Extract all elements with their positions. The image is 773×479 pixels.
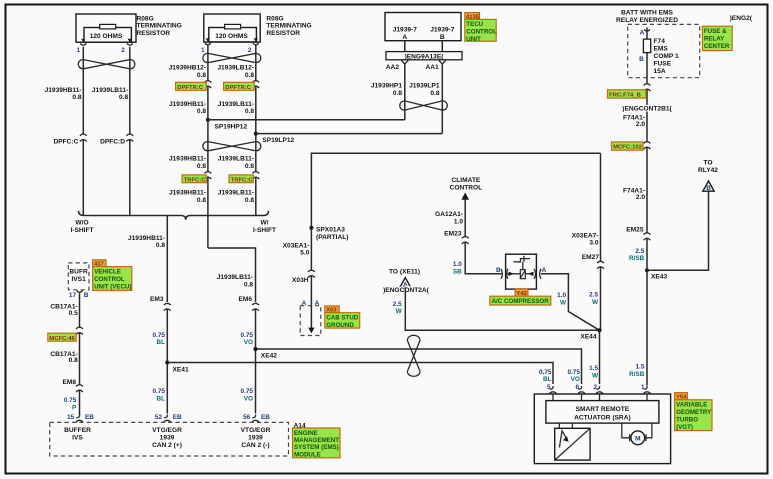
resistor R08G #2 element symbol bbox=[225, 24, 241, 29]
resistor R08G #2 inner 120 OHMS box bbox=[209, 28, 257, 43]
svg-text:GA12A1-: GA12A1- bbox=[435, 211, 463, 218]
svg-text:0.75: 0.75 bbox=[153, 332, 166, 339]
wire 0.75 VO lower bbox=[255, 349, 257, 414]
svg-text:0.8: 0.8 bbox=[245, 72, 254, 79]
svg-text:W: W bbox=[592, 372, 599, 379]
svg-text:56: 56 bbox=[243, 414, 251, 421]
svg-text:VTG/EGR: VTG/EGR bbox=[152, 427, 182, 434]
svg-text:EM3: EM3 bbox=[150, 296, 164, 303]
connector X03H bbox=[310, 271, 312, 275]
svg-text:VARIABLE: VARIABLE bbox=[676, 402, 707, 409]
svg-text:W/: W/ bbox=[260, 220, 268, 227]
ID label 417 bbox=[93, 260, 106, 267]
svg-text:CENTER: CENTER bbox=[704, 43, 730, 50]
motor wires bbox=[622, 423, 652, 438]
node XE41 junction bbox=[165, 360, 169, 364]
twisted pair symbol vertical (XE41/XE42) bbox=[407, 335, 420, 376]
svg-text:ACTUATOR (SRA): ACTUATOR (SRA) bbox=[574, 414, 631, 421]
svg-text:3.0: 3.0 bbox=[589, 239, 598, 246]
connector EM8 bbox=[79, 385, 81, 389]
svg-text:(VGT): (VGT) bbox=[676, 424, 693, 431]
triangle node B (RLY42) bbox=[703, 181, 714, 191]
svg-text:0.8: 0.8 bbox=[245, 108, 254, 115]
wire J1939LP1 bbox=[441, 63, 443, 133]
wire 0.75 BL lower bbox=[166, 363, 168, 414]
svg-text:GEOMETRY: GEOMETRY bbox=[676, 409, 712, 416]
connector AA2 hook bbox=[401, 60, 408, 64]
svg-text:DPFTR:C: DPFTR:C bbox=[177, 85, 204, 91]
svg-text:CONTROL: CONTROL bbox=[466, 29, 497, 36]
connector EM3 bbox=[166, 304, 168, 308]
TECU pin A wire bbox=[404, 41, 406, 52]
ID label 413E bbox=[465, 13, 480, 20]
svg-text:1.0: 1.0 bbox=[557, 292, 566, 299]
svg-text:DPFC:C: DPFC:C bbox=[53, 139, 78, 146]
svg-text:0.8: 0.8 bbox=[197, 108, 206, 115]
svg-text:EM8: EM8 bbox=[62, 379, 76, 386]
svg-text:EMS: EMS bbox=[654, 46, 669, 53]
svg-text:0.8: 0.8 bbox=[244, 282, 253, 289]
pin 6 hook bbox=[578, 386, 585, 394]
svg-text:A: A bbox=[402, 34, 407, 41]
label ENGINE MANAGEMENT SYSTEM (EMS) MODULE bbox=[293, 428, 341, 458]
svg-text:J1939-7: J1939-7 bbox=[393, 26, 418, 33]
svg-text:1: 1 bbox=[641, 384, 645, 391]
highlighted label TRFC:C #1 bbox=[182, 175, 206, 183]
svg-text:0.8: 0.8 bbox=[245, 197, 254, 204]
svg-text:DPFC:D: DPFC:D bbox=[100, 139, 125, 146]
svg-text:5: 5 bbox=[547, 384, 551, 391]
svg-text:W/O: W/O bbox=[75, 220, 88, 227]
svg-text:X03EA7-: X03EA7- bbox=[572, 232, 599, 239]
svg-text:120 OHMS: 120 OHMS bbox=[215, 33, 248, 40]
svg-text:J1939LB11-: J1939LB11- bbox=[218, 155, 254, 162]
svg-text:SB: SB bbox=[453, 268, 462, 275]
svg-text:J1939HB11-: J1939HB11- bbox=[128, 235, 165, 242]
svg-text:1.0: 1.0 bbox=[454, 218, 463, 225]
node SPX01A3 dot bbox=[309, 226, 313, 230]
resistor R08G #2 outer box bbox=[204, 14, 260, 42]
svg-text:DPFTR:C: DPFTR:C bbox=[225, 85, 252, 91]
SRA header box bbox=[546, 401, 659, 424]
svg-text:SMART REMOTE: SMART REMOTE bbox=[576, 406, 630, 413]
svg-text:AA2: AA2 bbox=[386, 64, 400, 71]
svg-text:6: 6 bbox=[575, 384, 579, 391]
resistor R08G #2 pin 1 terminal bbox=[206, 38, 210, 41]
wire X03EA7 vertical (EM27) bbox=[600, 153, 602, 330]
svg-text:J1939HB12-: J1939HB12- bbox=[169, 64, 206, 71]
svg-text:RESISTOR: RESISTOR bbox=[266, 30, 300, 37]
svg-text:TO: TO bbox=[703, 160, 712, 167]
svg-text:FUSE: FUSE bbox=[654, 60, 672, 67]
pin A bracket connectors bbox=[534, 269, 541, 279]
svg-text:RLY42: RLY42 bbox=[698, 167, 718, 174]
label A/C COMPRESSOR bbox=[490, 296, 551, 305]
svg-text:BL: BL bbox=[156, 339, 165, 346]
svg-text:M: M bbox=[635, 436, 641, 443]
svg-text:2: 2 bbox=[248, 47, 252, 54]
svg-text:XE44: XE44 bbox=[580, 334, 596, 341]
svg-text:CONTROL: CONTROL bbox=[450, 185, 483, 192]
svg-text:SYSTEM (EMS): SYSTEM (EMS) bbox=[294, 444, 339, 451]
svg-text:J1939LB11-: J1939LB11- bbox=[92, 87, 128, 94]
ID label X03 bbox=[325, 306, 339, 313]
svg-text:BL: BL bbox=[543, 376, 552, 383]
pin 2 hook bbox=[596, 386, 603, 394]
svg-text:BUFR: BUFR bbox=[69, 269, 88, 276]
svg-text:W: W bbox=[396, 308, 403, 315]
svg-text:2.5: 2.5 bbox=[393, 301, 402, 308]
svg-text:0.5: 0.5 bbox=[69, 310, 78, 317]
svg-text:J1939HB11-: J1939HB11- bbox=[169, 101, 206, 108]
svg-text:J1939LP1: J1939LP1 bbox=[409, 83, 440, 90]
svg-text:RELAY ENERGIZED: RELAY ENERGIZED bbox=[616, 17, 678, 24]
connector FRC:F74_B hooks bbox=[646, 84, 648, 88]
svg-text:0.8: 0.8 bbox=[393, 90, 402, 97]
svg-text:VEHICLE: VEHICLE bbox=[94, 268, 121, 275]
svg-text:15: 15 bbox=[67, 414, 75, 421]
svg-text:1: 1 bbox=[201, 47, 205, 54]
svg-text:B: B bbox=[84, 292, 89, 299]
position sensor box bbox=[555, 428, 590, 460]
wire XE41 horizontal bbox=[167, 363, 553, 385]
svg-text:J1939HB11-: J1939HB11- bbox=[169, 155, 206, 162]
arrow to climate control bbox=[461, 192, 469, 199]
svg-text:J1939LB12-: J1939LB12- bbox=[217, 64, 254, 71]
label CAB STUD GROUND bbox=[325, 313, 360, 328]
svg-text:FRC:F74_B: FRC:F74_B bbox=[609, 93, 641, 99]
pin 5 hook bbox=[549, 386, 556, 394]
svg-text:EM27: EM27 bbox=[582, 254, 600, 261]
ID label Y42 bbox=[515, 289, 528, 296]
svg-text:0.8: 0.8 bbox=[197, 72, 206, 79]
connector MCFC:46 hooks bbox=[79, 328, 81, 332]
fuse F74 element bbox=[643, 39, 650, 53]
connector TRFC:C left hooks bbox=[207, 172, 209, 176]
svg-text:2.0: 2.0 bbox=[636, 194, 645, 201]
connector EM27 bbox=[600, 262, 602, 266]
svg-text:0.75: 0.75 bbox=[153, 388, 166, 395]
svg-text:R08G: R08G bbox=[137, 15, 154, 22]
wire branch to RLY42 bbox=[647, 191, 709, 270]
svg-text:TURBO: TURBO bbox=[676, 416, 698, 423]
svg-text:VO: VO bbox=[571, 376, 580, 383]
svg-text:XE42: XE42 bbox=[261, 352, 277, 359]
svg-text:SPX01A3: SPX01A3 bbox=[316, 227, 345, 234]
resistor R08G #2 pin 2 terminal bbox=[254, 38, 258, 41]
connector box ENG9A13E bbox=[386, 52, 462, 60]
svg-text:X03EA1-: X03EA1- bbox=[283, 242, 310, 249]
pin 56 hook into EMS module bbox=[252, 415, 259, 423]
sensor connecting stubs bbox=[559, 423, 572, 428]
svg-text:0.8: 0.8 bbox=[156, 242, 165, 249]
svg-text:J1939HP1: J1939HP1 bbox=[371, 83, 402, 90]
svg-text:W: W bbox=[592, 299, 599, 306]
TECU pin B wire bbox=[441, 41, 443, 52]
wire XE42 horizontal bbox=[256, 349, 582, 384]
svg-text:TRFC:C: TRFC:C bbox=[184, 177, 207, 183]
svg-text:TECU: TECU bbox=[466, 21, 483, 28]
svg-text:TERMINATING: TERMINATING bbox=[266, 23, 311, 30]
wire jog to EM6 (J1939LB11) bbox=[208, 248, 256, 302]
highlighted label MCFC:46 bbox=[48, 333, 76, 341]
svg-text:1.5: 1.5 bbox=[636, 364, 645, 371]
svg-text:17: 17 bbox=[69, 292, 77, 299]
svg-text:F74: F74 bbox=[654, 38, 666, 45]
svg-text:0.8: 0.8 bbox=[197, 163, 206, 170]
svg-text:XE43: XE43 bbox=[651, 274, 667, 281]
wire 1.0 W from pin A to XE44 bbox=[541, 274, 600, 331]
svg-text:)ENG9A13E(: )ENG9A13E( bbox=[405, 53, 445, 60]
pin B bracket connectors bbox=[501, 269, 508, 279]
ground dashed box bbox=[300, 306, 321, 336]
compressor solenoid symbol bbox=[514, 259, 531, 262]
svg-text:EM23: EM23 bbox=[444, 231, 462, 238]
svg-text:VO: VO bbox=[244, 395, 253, 402]
svg-text:0.8: 0.8 bbox=[430, 90, 439, 97]
connector EM23 bbox=[464, 237, 466, 241]
svg-text:1.0: 1.0 bbox=[453, 261, 462, 268]
pin 1 hook bbox=[643, 386, 650, 394]
svg-text:EB: EB bbox=[173, 414, 182, 421]
wire J1939HB12 (x=207.9) bbox=[207, 45, 209, 248]
wire SP19HP12 horizontal bbox=[208, 119, 405, 121]
svg-text:R/SB: R/SB bbox=[629, 255, 645, 262]
wire CB17A1 bbox=[79, 293, 81, 415]
svg-text:0.75: 0.75 bbox=[241, 332, 254, 339]
triangle node A (XE11) bbox=[400, 278, 411, 288]
svg-text:I-SHIFT: I-SHIFT bbox=[70, 227, 93, 234]
svg-text:J1939LB11-: J1939LB11- bbox=[218, 190, 254, 197]
svg-text:1.5: 1.5 bbox=[589, 365, 598, 372]
svg-text:MODULE: MODULE bbox=[294, 451, 321, 458]
connector MCFC:102 hooks bbox=[646, 142, 648, 146]
svg-text:)ENGCONT2B1(: )ENGCONT2B1( bbox=[622, 105, 672, 112]
svg-text:52: 52 bbox=[155, 414, 163, 421]
ground arrow bbox=[308, 328, 314, 334]
svg-text:2: 2 bbox=[121, 47, 125, 54]
svg-text:I-SHIFT: I-SHIFT bbox=[253, 227, 276, 234]
wire 0.75 VO upper bbox=[255, 309, 257, 349]
svg-text:15A: 15A bbox=[654, 68, 666, 75]
svg-text:0.8: 0.8 bbox=[72, 94, 81, 101]
wire 0.75 BL upper bbox=[166, 309, 168, 363]
highlighted label DPFTR:C #1 bbox=[176, 82, 207, 90]
wire SPX01A3 ground branch (corner + vertical) bbox=[311, 153, 600, 329]
connector DPFC:D on right wire bbox=[129, 135, 131, 139]
resistor R08G #1 pin 2 terminal bbox=[128, 39, 132, 42]
svg-text:FUSE &: FUSE & bbox=[704, 28, 727, 35]
svg-text:BATT WITH EMS: BATT WITH EMS bbox=[621, 10, 673, 17]
connector DPFC:C on left wire bbox=[82, 135, 84, 139]
svg-text:B: B bbox=[496, 267, 501, 274]
wire into fuse bbox=[646, 28, 648, 386]
svg-text:2: 2 bbox=[593, 384, 597, 391]
svg-text:0.75: 0.75 bbox=[241, 388, 254, 395]
connector EM25 bbox=[646, 234, 648, 238]
ID label Y54 bbox=[675, 393, 688, 400]
svg-text:X03H: X03H bbox=[292, 277, 309, 284]
resistor R08G #1 pin 1 terminal bbox=[81, 39, 85, 42]
svg-text:BL: BL bbox=[156, 395, 165, 402]
svg-text:0.8: 0.8 bbox=[69, 357, 78, 364]
svg-text:ENGINE: ENGINE bbox=[294, 430, 318, 437]
svg-text:SP19LP12: SP19LP12 bbox=[262, 137, 294, 144]
wire drop to EM3 bbox=[166, 216, 168, 303]
label FUSE & RELAY CENTER bbox=[702, 26, 732, 50]
svg-text:CLIMATE: CLIMATE bbox=[451, 177, 480, 184]
node SP19HP12 junction dot bbox=[206, 118, 210, 122]
svg-text:UNIT: UNIT bbox=[466, 36, 481, 43]
twisted pair symbol (TECU wires) bbox=[400, 101, 448, 110]
svg-text:0.8: 0.8 bbox=[119, 94, 128, 101]
sensor arrow bbox=[559, 431, 566, 448]
highlighted label DPFTR:C #2 bbox=[224, 82, 255, 90]
svg-text:TERMINATING: TERMINATING bbox=[137, 23, 182, 30]
svg-text:VTG/EGR: VTG/EGR bbox=[241, 427, 271, 434]
svg-text:0.8: 0.8 bbox=[197, 197, 206, 204]
node XE44 junction bbox=[597, 328, 601, 332]
VECU dashed box BUFR IVS1 bbox=[68, 263, 89, 290]
highlighted label MCFC:102 bbox=[612, 142, 644, 150]
svg-text:J1939HB11-: J1939HB11- bbox=[169, 190, 206, 197]
node SP19LP12 junction dot bbox=[254, 132, 258, 136]
SRA outer box bbox=[534, 394, 670, 464]
svg-text:0.75: 0.75 bbox=[539, 369, 552, 376]
wire GA12A1 / 1.0 SB bbox=[465, 199, 502, 274]
svg-text:J1939HB11-: J1939HB11- bbox=[45, 87, 82, 94]
wire J1939LB12 (x=255.8) bbox=[255, 45, 257, 215]
connector AA1 hook bbox=[439, 60, 446, 64]
svg-text:R/SB: R/SB bbox=[629, 371, 645, 378]
svg-text:MANAGEMENT: MANAGEMENT bbox=[294, 437, 339, 444]
svg-text:UNIT (VECU): UNIT (VECU) bbox=[94, 283, 131, 290]
connector TRFC:C right hooks bbox=[255, 172, 257, 176]
svg-text:B: B bbox=[706, 185, 711, 192]
svg-text:B: B bbox=[440, 34, 445, 41]
svg-text:R08G: R08G bbox=[266, 15, 283, 22]
svg-text:J1939-7: J1939-7 bbox=[430, 26, 455, 33]
svg-text:CONTROL: CONTROL bbox=[94, 276, 125, 283]
svg-text:J1939LB11-: J1939LB11- bbox=[217, 274, 253, 281]
EMS module dashed box bbox=[50, 422, 289, 456]
ECU box TECU (top middle) bbox=[385, 13, 461, 41]
svg-text:EM6: EM6 bbox=[238, 296, 252, 303]
svg-text:EB: EB bbox=[261, 414, 270, 421]
svg-text:120 OHMS: 120 OHMS bbox=[90, 33, 123, 40]
svg-text:B: B bbox=[639, 56, 644, 63]
wire SP19LP12 horizontal bbox=[256, 133, 442, 135]
svg-text:5.0: 5.0 bbox=[300, 249, 309, 256]
svg-text:A/C COMPRESSOR: A/C COMPRESSOR bbox=[492, 298, 550, 305]
fuse dashed box bbox=[628, 24, 700, 77]
svg-text:IVS1: IVS1 bbox=[71, 276, 86, 283]
resistor R08G #1 element symbol bbox=[100, 24, 116, 29]
svg-text:W: W bbox=[560, 299, 567, 306]
svg-text:1939: 1939 bbox=[160, 435, 175, 442]
VECU pin B hook bbox=[77, 291, 83, 293]
svg-text:A: A bbox=[640, 29, 645, 36]
svg-text:IVS: IVS bbox=[72, 435, 83, 442]
svg-text:AA1: AA1 bbox=[425, 64, 439, 71]
compressor internal wire with arrows bbox=[506, 273, 533, 275]
svg-text:EM25: EM25 bbox=[626, 226, 644, 233]
twisted pair symbol under R08G #1 bbox=[78, 60, 135, 69]
label VARIABLE GEOMETRY TURBO (VGT) bbox=[675, 400, 712, 431]
connector DPFTR:C right hooks bbox=[255, 81, 257, 85]
svg-text:VO: VO bbox=[244, 339, 253, 346]
svg-text:TO (XE11): TO (XE11) bbox=[389, 268, 420, 275]
svg-text:0.75: 0.75 bbox=[567, 369, 580, 376]
A/C compressor Y42 box bbox=[506, 254, 537, 289]
svg-text:GROUND: GROUND bbox=[326, 322, 354, 329]
wire 1.5 W down to SRA pin 2 bbox=[599, 330, 601, 384]
svg-text:P: P bbox=[72, 404, 77, 411]
svg-text:2.0: 2.0 bbox=[636, 121, 645, 128]
svg-text:CAN 2 (-): CAN 2 (-) bbox=[241, 442, 269, 449]
svg-text:EB: EB bbox=[85, 414, 94, 421]
SRA pin stubs into header bbox=[553, 394, 647, 401]
node XE42 junction bbox=[253, 347, 257, 351]
wire 2.5 W from XE11 bbox=[405, 287, 599, 330]
svg-text:COMP 1: COMP 1 bbox=[654, 53, 679, 60]
pin 15 hook into EMS module bbox=[76, 415, 83, 423]
motor M symbol bbox=[631, 431, 645, 445]
svg-text:J1939LB11-: J1939LB11- bbox=[218, 101, 254, 108]
connector EM6 bbox=[255, 304, 257, 308]
svg-text:(PARTIAL): (PARTIAL) bbox=[316, 234, 348, 241]
svg-text:1939: 1939 bbox=[248, 435, 263, 442]
node XE43 junction bbox=[645, 268, 649, 272]
svg-text:2.5: 2.5 bbox=[635, 248, 644, 255]
resistor R08G #1 outer box bbox=[76, 14, 136, 42]
label TECU CONTROL UNIT bbox=[465, 19, 496, 41]
wire J1939LB11 left (x=129.8) bbox=[129, 47, 131, 216]
resistor R08G #1 inner 120 OHMS box bbox=[84, 28, 131, 43]
highlighted label FRC:F74_B bbox=[608, 90, 647, 98]
svg-text:RESISTOR: RESISTOR bbox=[137, 30, 171, 37]
twisted pair symbol mid (R08G #2 wires) bbox=[203, 142, 261, 151]
bus brace (CAN bus joining) bbox=[79, 211, 269, 220]
connector DPFTR:C left hooks bbox=[207, 81, 209, 85]
pin 52 hook into EMS module bbox=[164, 415, 171, 423]
svg-text:XE41: XE41 bbox=[173, 367, 189, 374]
svg-text:A: A bbox=[542, 267, 547, 274]
highlighted label TRFC:C #2 bbox=[229, 175, 253, 183]
label VEHICLE CONTROL UNIT (VECU) bbox=[93, 267, 132, 291]
svg-text:MCFC:102: MCFC:102 bbox=[613, 145, 643, 151]
svg-text:)ENGCONT2A(: )ENGCONT2A( bbox=[383, 287, 430, 294]
wire J1939HB11 left (x=83.3) bbox=[82, 47, 84, 216]
svg-text:)ENG2(: )ENG2( bbox=[730, 15, 753, 22]
svg-text:1: 1 bbox=[77, 47, 81, 54]
svg-text:CAN 2 (+): CAN 2 (+) bbox=[152, 442, 182, 449]
svg-text:SP19HP12: SP19HP12 bbox=[215, 123, 248, 130]
svg-text:TRFC:C: TRFC:C bbox=[231, 177, 254, 183]
svg-text:BUFFER: BUFFER bbox=[64, 427, 91, 434]
svg-text:0.75: 0.75 bbox=[64, 397, 77, 404]
wire J1939HP1 bbox=[404, 63, 406, 120]
svg-text:RELAY: RELAY bbox=[704, 36, 725, 43]
svg-text:MCFC:46: MCFC:46 bbox=[49, 336, 75, 342]
svg-text:CAB STUD: CAB STUD bbox=[326, 315, 358, 322]
svg-text:2.5: 2.5 bbox=[589, 292, 598, 299]
svg-text:0.8: 0.8 bbox=[245, 163, 254, 170]
twisted pair symbol under R08G #2 bbox=[203, 53, 261, 62]
